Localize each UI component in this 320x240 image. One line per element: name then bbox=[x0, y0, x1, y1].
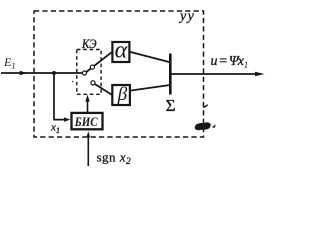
svg-text:β: β bbox=[117, 84, 128, 105]
svg-text:КЭ: КЭ bbox=[81, 37, 96, 51]
block БИС bbox=[72, 113, 103, 129]
speck artifact left of КЭ box bbox=[72, 81, 73, 82]
blob small right mark bbox=[212, 124, 216, 128]
block alpha bbox=[112, 42, 129, 62]
blob lower-left bump bbox=[195, 125, 203, 130]
arrowhead up into КЭ box bbox=[85, 95, 89, 102]
arrowhead up into БИС bottom bbox=[87, 131, 91, 137]
block beta bbox=[112, 85, 130, 105]
wire lower contact to beta bbox=[94, 84, 112, 95]
outer dashed box УУ (control unit boundary) bbox=[34, 11, 204, 137]
ink blob artifact bbox=[195, 123, 210, 130]
arrowhead into БИС left bbox=[64, 117, 70, 121]
switch common contact bbox=[83, 71, 87, 75]
wire input horizontal bbox=[1, 72, 83, 74]
arrowhead on input wire bbox=[20, 71, 28, 75]
svg-text:Σ: Σ bbox=[166, 96, 176, 115]
wire sgn x2 input from bottom bbox=[87, 135, 89, 167]
switch lower contact bbox=[91, 81, 95, 85]
wire БИС to switch (control) bbox=[87, 99, 89, 113]
wire feedback x1 down and right into БИС bbox=[54, 73, 67, 120]
svg-text:1: 1 bbox=[244, 60, 249, 70]
switch dashed box КЭ bbox=[77, 50, 101, 95]
switch upper contact bbox=[90, 65, 94, 69]
wire beta to summator bbox=[131, 85, 170, 91]
wire switch arm to alpha bbox=[85, 52, 112, 73]
tick on dashed right edge bbox=[204, 105, 208, 108]
wire alpha to summator bbox=[131, 52, 171, 62]
wire output bbox=[170, 73, 258, 75]
svg-text:БИС: БИС bbox=[74, 115, 98, 129]
summator bar bbox=[169, 54, 172, 95]
blob upper-right bump bbox=[203, 122, 211, 127]
svg-text:u = Ψx: u = Ψx bbox=[211, 54, 245, 69]
svg-text:α: α bbox=[115, 38, 128, 64]
node junction on input wire bbox=[52, 71, 56, 75]
arrowhead output bbox=[255, 72, 265, 77]
